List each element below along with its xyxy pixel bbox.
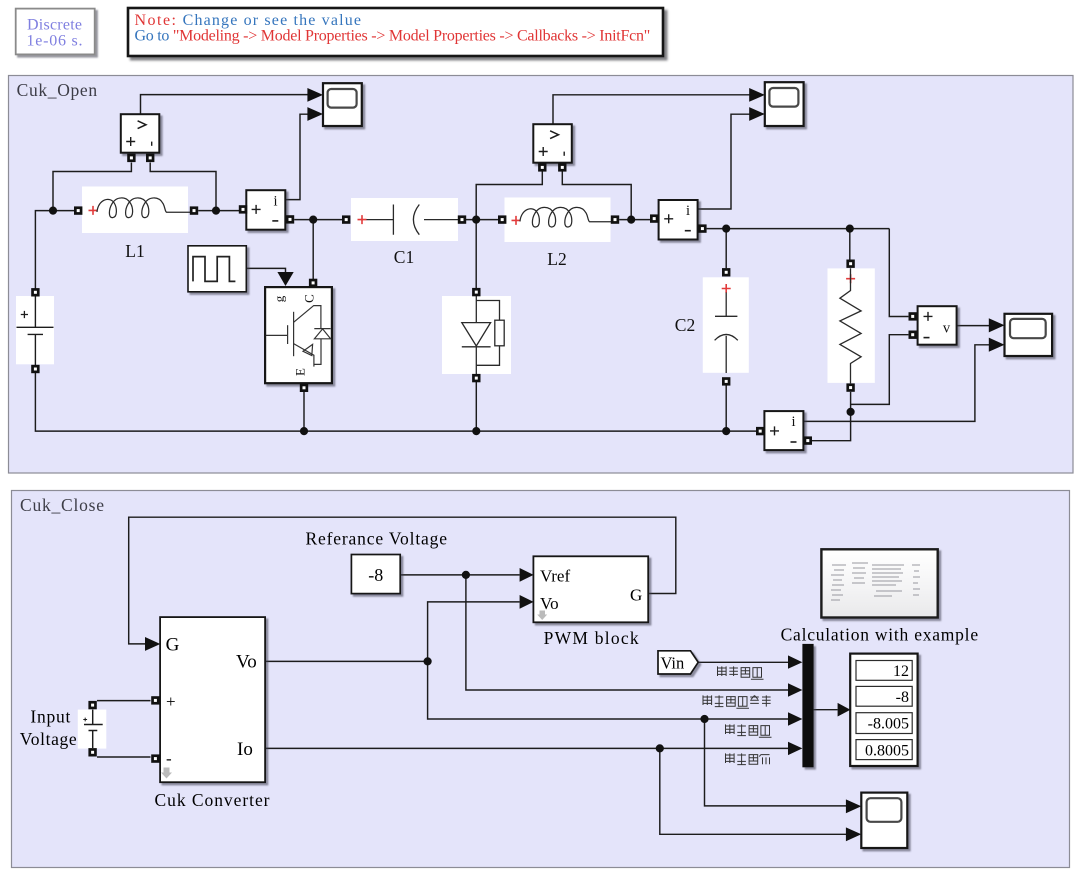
- wire V1 output to scope1 input 1: [141, 95, 309, 115]
- junction node F: [722, 225, 730, 233]
- wire input source bottom to Cuk minus: [97, 756, 151, 758]
- voltage measurement V2: [533, 124, 572, 171]
- svg-text:E: E: [293, 368, 308, 376]
- note annotation box: [128, 8, 663, 56]
- svg-text:Cuk Converter: Cuk Converter: [155, 790, 270, 810]
- Vin goto tag: [658, 651, 698, 674]
- wire node F down to C2 top: [725, 229, 727, 269]
- svg-text:i: i: [686, 203, 690, 219]
- pulse generator: [188, 246, 246, 292]
- svg-text:Go to "Modeling -> Model Prope: Go to "Modeling -> Model Properties -> M…: [135, 28, 651, 45]
- wire ref node down to mux input 2: [466, 575, 789, 690]
- gate arrow into IGBT: [277, 272, 293, 286]
- svg-text:Discrete: Discrete: [27, 17, 82, 34]
- capacitor C1: [342, 198, 466, 267]
- signal label 输入电压: [718, 666, 764, 679]
- svg-text:Vref: Vref: [540, 567, 570, 586]
- scope3: [989, 314, 1052, 356]
- wire V2 left sense down to node D: [476, 172, 542, 220]
- svg-text:PWM block: PWM block: [544, 628, 639, 648]
- wire diode cathode down to rail: [475, 382, 477, 431]
- powergui block Discrete 1e-06 s.: [16, 9, 95, 55]
- svg-text:+: +: [166, 692, 176, 711]
- svg-text:i: i: [791, 414, 795, 430]
- wire mux output to display: [814, 709, 838, 711]
- svg-text:Note: Change or see the value: Note: Change or see the value: [135, 12, 361, 29]
- wire I3 i-output to scope3 input 2: [804, 345, 990, 422]
- junction node L: [656, 744, 664, 752]
- junction rail 2: [472, 427, 480, 435]
- svg-text:Io: Io: [237, 739, 253, 760]
- svg-text:v: v: [943, 321, 951, 337]
- image annotation Calculation with example: [781, 549, 979, 644]
- wire V2 right sense down to node E: [562, 172, 631, 220]
- wire node J up to PWM Vo input: [428, 602, 520, 662]
- svg-text:Cuk_Close: Cuk_Close: [20, 495, 104, 515]
- mux: [788, 644, 814, 767]
- junction node C: [309, 216, 317, 224]
- voltage measurement V1: [121, 114, 160, 162]
- wire node K down to scope4 input 1: [705, 719, 848, 806]
- wire PWM G feedback to Cuk G input: [129, 517, 676, 644]
- scope1: [307, 83, 361, 126]
- svg-text:-: -: [166, 749, 172, 768]
- IGBT Q1: [265, 279, 332, 392]
- wire L1 right port to I1 input: [198, 210, 239, 212]
- wire node C down to IGBT collector: [312, 220, 314, 279]
- wire I2 i-output to scope2 input 2: [698, 114, 750, 209]
- wire V2 output to scope2 input 1: [553, 95, 750, 125]
- resistor R load: [828, 260, 875, 392]
- current measurement I3: [756, 411, 812, 450]
- svg-text:g: g: [272, 295, 287, 302]
- wire I2 output along output net: [707, 228, 890, 230]
- scope4: [846, 793, 907, 848]
- wire L2 right to I2 input: [619, 219, 650, 221]
- svg-text:Referance Voltage: Referance Voltage: [306, 529, 448, 549]
- wire C1 right to L2 left: [466, 219, 498, 221]
- junction node G: [846, 225, 854, 233]
- signal label 输出电流: [726, 753, 770, 764]
- diode D1: [442, 288, 511, 382]
- wire node D down to diode anode: [475, 220, 477, 289]
- svg-text:-8: -8: [368, 565, 383, 585]
- DC voltage source Vdc: [16, 288, 54, 373]
- junction ref node: [462, 571, 470, 579]
- svg-text:-8.005: -8.005: [868, 716, 909, 733]
- svg-text:Vo: Vo: [540, 594, 559, 613]
- svg-text:Vin: Vin: [661, 654, 685, 673]
- junction node J: [424, 657, 432, 665]
- svg-text:Cuk_Open: Cuk_Open: [17, 80, 98, 100]
- svg-text:L1: L1: [125, 241, 144, 261]
- svg-text:i: i: [273, 194, 277, 210]
- wire output net down to V3 plus: [889, 229, 908, 317]
- junction rail 1: [300, 427, 308, 435]
- area Cuk_Open: [9, 76, 1074, 474]
- wire resistor bottom through node H to I3 minus: [812, 392, 851, 441]
- wire I1 i-output to scope1 input 2: [286, 114, 309, 199]
- junction node B: [212, 207, 220, 215]
- wire IGBT emitter down to rail: [303, 392, 305, 431]
- scope2: [749, 82, 803, 126]
- wire sense branch to V3 minus: [851, 335, 909, 405]
- wire node G down to resistor top: [849, 229, 851, 260]
- wire Cuk Io output to mux input 4: [265, 747, 788, 749]
- capacitor C2: [675, 268, 749, 386]
- svg-text:Input: Input: [30, 707, 70, 727]
- svg-text:L2: L2: [547, 249, 566, 269]
- junction node D: [472, 216, 480, 224]
- current measurement I2: [650, 200, 707, 240]
- voltage measurement V3: [909, 306, 957, 345]
- svg-text:-8: -8: [896, 689, 909, 706]
- wire constant -8 to PWM Vref: [401, 574, 520, 576]
- area Cuk_Close: [12, 491, 1070, 868]
- junction node K: [700, 715, 708, 723]
- PWM block: [520, 556, 649, 648]
- svg-text:0.8005: 0.8005: [865, 743, 909, 760]
- wire I1 output to C1 left: [294, 219, 342, 221]
- wire battery1 top to L1 left (node in+): [35, 211, 74, 289]
- wire Cuk Vo output to node J: [265, 660, 427, 662]
- wire Vin tag to mux input 1: [698, 661, 789, 663]
- signal label 输出电压参考: [703, 695, 771, 708]
- svg-text:1e-06 s.: 1e-06 s.: [27, 33, 83, 50]
- inductor L2: [498, 198, 619, 270]
- input voltage DC source: [20, 701, 107, 757]
- svg-text:12: 12: [893, 663, 909, 680]
- wire node L down to scope4 input 2: [660, 748, 847, 834]
- wire ground rail: [35, 373, 756, 432]
- wire input source top to Cuk plus: [97, 700, 151, 702]
- wire V1 left sense down to node A: [53, 163, 131, 211]
- signal label 输出电压: [726, 724, 772, 737]
- wire C2 bottom to ground rail: [725, 382, 727, 432]
- svg-text:Voltage: Voltage: [20, 729, 77, 749]
- svg-text:C2: C2: [675, 315, 695, 335]
- svg-text:Calculation with example: Calculation with example: [781, 625, 979, 645]
- wire V3 output to scope3 input 1: [957, 325, 989, 327]
- inductor L1: [74, 187, 198, 262]
- constant -8: [306, 529, 448, 594]
- junction node H: [847, 408, 855, 416]
- junction rail 3: [722, 427, 730, 435]
- wire V1 right sense down to node B: [150, 163, 216, 211]
- svg-text:G: G: [630, 586, 642, 605]
- display block: [838, 654, 918, 766]
- svg-text:C: C: [302, 294, 317, 303]
- svg-text:C1: C1: [394, 247, 414, 267]
- svg-text:Vo: Vo: [236, 652, 257, 673]
- svg-text:G: G: [166, 635, 180, 656]
- junction node A: [49, 207, 57, 215]
- wire pulse generator to IGBT gate: [247, 268, 286, 272]
- wire node J down to mux input 3: [428, 661, 789, 719]
- Cuk Converter subsystem: [145, 617, 270, 810]
- current measurement I1: [239, 190, 294, 230]
- junction node E: [627, 216, 635, 224]
